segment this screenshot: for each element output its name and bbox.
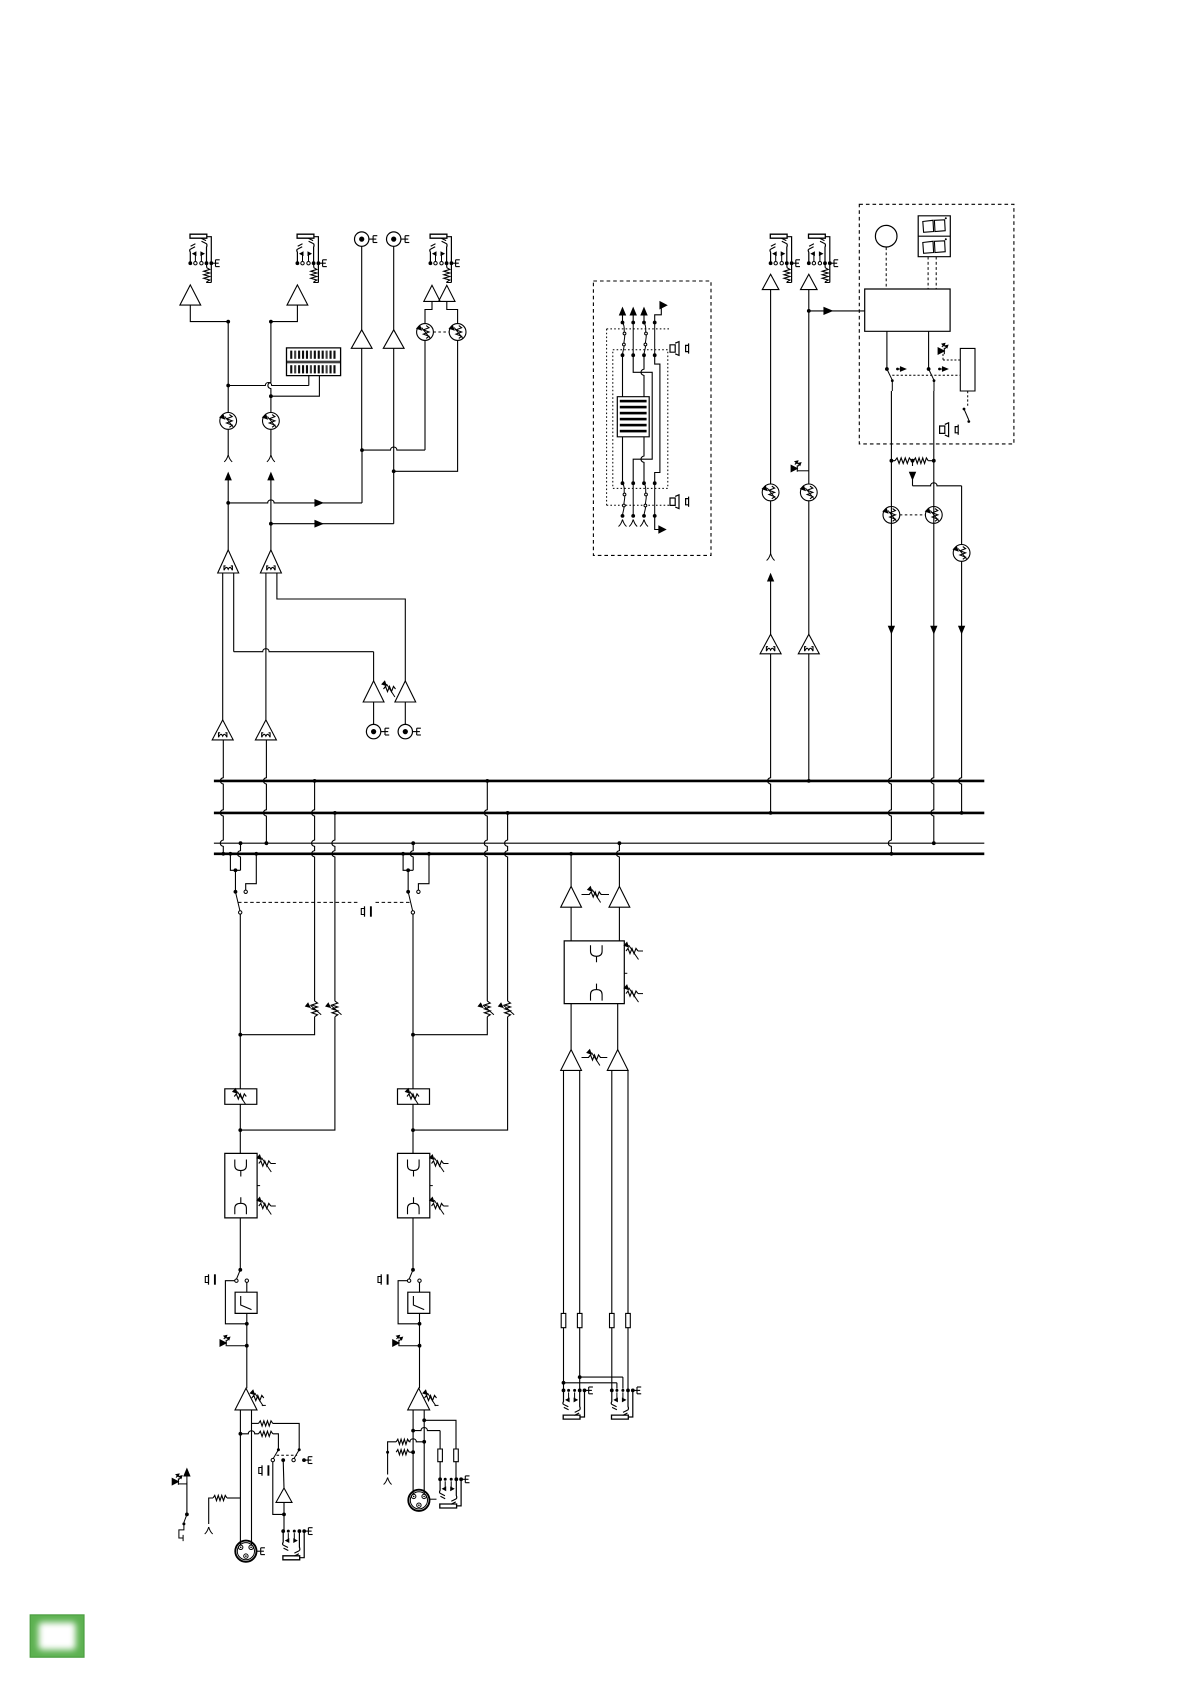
wire main L chain	[227, 322, 229, 413]
op-amp CH1 comp amp	[276, 1488, 292, 1502]
op-amp T4 mix amp R	[255, 720, 276, 740]
variable resistor CH1 EQ hi	[257, 1155, 276, 1172]
switch S3 speaker	[963, 408, 971, 423]
wire CH2 sw common	[406, 870, 410, 893]
LED CH2 clip	[393, 1335, 420, 1346]
resistor R5 mono sum L	[890, 458, 912, 464]
power amp dashed enclosure	[859, 204, 1014, 444]
op-amp T3 mix amp L	[212, 720, 233, 740]
switch S1 amp L	[887, 369, 894, 391]
wire CH1 preamp legs	[240, 1410, 251, 1545]
wire CH2 aux2 tap	[411, 1017, 508, 1132]
fader CH2 level	[398, 1089, 430, 1105]
wire ST leg tails	[564, 1328, 629, 1391]
wire lamp dashed	[885, 247, 887, 289]
op-amp T5 monitor amp L	[760, 634, 781, 654]
wire FX ch1 to tank	[622, 355, 624, 397]
wire A7 to P4	[447, 301, 458, 323]
wire ctrl L chain	[770, 290, 772, 484]
node speaker arrow R	[938, 367, 947, 371]
switch S2 amp R	[929, 369, 936, 391]
wire U2 dotted down	[967, 391, 969, 406]
wire P6 to T6	[808, 501, 810, 635]
connector J5 phones jack	[429, 234, 460, 282]
wire bus 4 (aux R)	[214, 852, 984, 855]
LED meter DS1	[287, 348, 341, 376]
wire T1 left leg	[222, 573, 224, 720]
wire P5 to insert	[770, 501, 772, 554]
FX inner dotted frame A	[607, 329, 670, 505]
variable resistor CH1 gain	[250, 1390, 265, 1406]
wire P1 to insert	[227, 429, 229, 455]
resistor R9 divider a	[388, 1439, 427, 1452]
resistor R12 jack series b	[454, 1449, 459, 1462]
potentiometer P5 ctrl level L	[762, 484, 779, 501]
wire ST legs	[564, 1070, 629, 1313]
wire T3 to bus4	[220, 740, 225, 856]
node CH2 bus taps	[401, 841, 431, 855]
node amp L bus4 dot	[890, 852, 894, 856]
wire T1 right leg to RCA L	[234, 573, 374, 681]
connector R3 rec out L RCA	[366, 724, 389, 738]
wire ST EQ out	[571, 1004, 618, 1050]
wire CH2 jack tap cold	[411, 1428, 440, 1449]
op-amp A3 2TK out L	[351, 330, 372, 349]
variable resistor ST trim	[582, 887, 610, 903]
node main R insert send chevron	[267, 455, 275, 462]
op-amp ST amp R	[609, 886, 630, 907]
op-amp ST line amp R	[607, 1050, 628, 1071]
FX bypass relay bottom	[623, 483, 648, 516]
connector R1 2TK out L RCA	[355, 232, 378, 246]
wire tank out 1	[622, 437, 624, 483]
resistor R11 jack series a	[438, 1449, 443, 1462]
FX inner dotted frame B	[613, 350, 668, 489]
fader CH1 level	[225, 1089, 257, 1105]
wire CH1 EQ to sw	[238, 1218, 242, 1272]
potentiometer P9 aux master	[953, 545, 970, 562]
node CH1 comp contacts	[281, 1457, 312, 1464]
wire ST link hot	[578, 1375, 623, 1389]
op-amp A9 ctrl out R	[801, 274, 818, 289]
connector J1 main out L jack	[188, 234, 219, 282]
resistor R7 phantom L	[252, 1421, 300, 1450]
variable resistor CH1 aux1	[306, 1001, 322, 1017]
connector J2 main out R jack	[296, 234, 327, 282]
connector J6 CH1 insert jack	[281, 1528, 312, 1560]
connector J4 ctrl room R jack	[807, 234, 838, 282]
switch CH2 input select	[408, 892, 414, 914]
LED D3 protect	[938, 343, 960, 360]
wire A2 out to node R	[269, 305, 297, 323]
wire U1 out L	[885, 331, 889, 371]
switch S4 phantom a	[271, 1448, 280, 1462]
op-amp A8 ctrl out L	[762, 274, 779, 289]
wire phones feed L	[362, 340, 425, 450]
wire CH1 comp in	[282, 1460, 285, 1488]
EQ block CH1	[225, 1153, 257, 1218]
connector J8 ST jack L	[562, 1387, 593, 1419]
connector X2 CH2 XLR	[408, 1490, 429, 1511]
potentiometer P3 phones level L	[417, 324, 434, 341]
mute speaker CH1 comp	[259, 1465, 269, 1475]
resistor ST leg a	[561, 1313, 566, 1327]
potentiometer P6 ctrl level R	[800, 484, 817, 501]
wire A4 to node	[393, 348, 395, 471]
EQ block ST	[564, 941, 624, 1004]
protect block U2	[960, 348, 975, 391]
wire CH1 aux2 tap	[238, 1017, 334, 1132]
wire CH1 to preamp	[245, 1324, 249, 1389]
potentiometer P1 main fader L	[220, 413, 237, 430]
wire CH2 lowcut bypass	[398, 1281, 421, 1326]
wire bus 1 (main L)	[214, 780, 984, 783]
potentiometer P8 phones R	[925, 507, 942, 524]
wire mute gang CH1-CH2	[238, 901, 410, 903]
wire CH1 to aux taps	[238, 914, 242, 1037]
connector R2 2TK out R RCA	[387, 232, 410, 246]
node CH1 bus taps	[229, 841, 259, 855]
wire T5 to bus2	[768, 654, 773, 815]
node ST bus taps	[569, 841, 621, 855]
switch S6 mic	[182, 1514, 187, 1525]
wire tank out 2	[641, 437, 644, 483]
connector J7 CH2 line jack	[438, 1476, 469, 1508]
wire CH1 legs to XLR	[0, 0, 1, 1]
wire amp L down	[888, 391, 891, 854]
wire display dashed	[928, 257, 936, 289]
wire CH1 comp bypass	[273, 1462, 286, 1517]
wire gang P3-P4	[433, 331, 449, 333]
variable resistor ST gain	[582, 1050, 608, 1066]
wire FX footswitch arrow	[653, 302, 667, 325]
wire ST L from bus4	[570, 854, 572, 887]
resistor R6 mono sum R	[911, 458, 936, 464]
LED CH1 mic	[172, 1474, 187, 1485]
op-amp CH1 preamp	[235, 1388, 257, 1410]
wire gang P7-P8	[900, 514, 926, 516]
wire R2 to A4	[393, 246, 395, 329]
op-amp A6 phones amp L	[424, 285, 440, 301]
wire A11 to R4	[404, 702, 406, 724]
wire CH1 aux1 tap	[240, 1017, 314, 1035]
variable resistor ST EQ lo	[624, 973, 643, 1002]
wire A10 to R3	[373, 702, 375, 724]
node FX out row	[621, 514, 657, 518]
speaker icon FX bottom	[670, 495, 689, 509]
switch S5 phantom b	[292, 1448, 301, 1462]
speaker icon CH2 lowcut	[378, 1274, 388, 1284]
wire CH2 aux1 tap	[413, 1017, 487, 1035]
speaker icon main	[940, 423, 959, 437]
wire A3 to node	[361, 348, 363, 450]
filter block CH1 lowcut	[235, 1282, 257, 1323]
wire A1 out to node L	[190, 305, 230, 323]
wire CH2 to preamp	[418, 1324, 422, 1389]
wire main R to driver T2	[270, 524, 272, 550]
EQ block CH2	[398, 1153, 430, 1218]
wire S6 stub	[179, 1524, 184, 1541]
variable resistor ST EQ hi	[624, 943, 643, 960]
wire main R insert return arrow	[268, 473, 274, 526]
wire ctrl R upper	[807, 290, 811, 484]
node FX out chevrons	[619, 520, 649, 527]
wire A6 to P3	[425, 301, 432, 323]
op-amp A10 rec out L	[363, 681, 384, 702]
LED CH1 clip	[220, 1335, 247, 1346]
wire bus 2 (main R)	[214, 812, 984, 815]
wire FX ch3 to tank	[641, 355, 644, 397]
wire CH2 aux2 to bus2	[505, 811, 510, 1001]
wire P2 to insert	[270, 429, 272, 455]
node ctrl L chevron	[767, 554, 775, 561]
connector R4 rec out R RCA	[398, 724, 421, 738]
node FX return contacts	[621, 481, 657, 485]
potentiometer P2 main fader R	[263, 413, 280, 430]
node amp L arrow	[889, 626, 895, 633]
wire ST to EQ	[571, 907, 619, 941]
node CH1 pad chevron	[205, 1527, 213, 1534]
wire CH2 XLR to jack	[429, 1498, 437, 1500]
op-amp ST amp L	[561, 886, 582, 907]
wire phantom gang	[277, 1454, 298, 1456]
wire FX input arrow 2	[630, 308, 636, 324]
connector J9 ST jack R	[610, 1387, 641, 1419]
wire T2 right leg to RCA R	[277, 573, 405, 681]
spring tank block	[617, 397, 649, 437]
wire CH2 aux1 to bus1	[484, 779, 489, 1001]
wire CH1 sw common	[234, 870, 238, 893]
wire 2TK feed R	[271, 469, 396, 526]
FX unit dashed enclosure	[593, 281, 711, 555]
wire FX input arrow 3	[641, 308, 647, 324]
op-amp A1 main out L driver	[180, 285, 201, 305]
op-amp CH2 preamp	[408, 1388, 430, 1410]
node main L insert send chevron	[224, 455, 232, 462]
wire main R chain	[268, 322, 271, 413]
lamp G1	[875, 225, 897, 247]
op-amp A2 main out R driver	[287, 285, 308, 305]
wire meter input R	[269, 376, 319, 399]
variable resistor CH1 aux2	[326, 1001, 342, 1017]
node speaker arrow L	[896, 367, 905, 371]
wire CH1 mic arrow	[184, 1469, 190, 1516]
resistor ST leg d	[626, 1313, 631, 1327]
wire 2TK feed L	[228, 448, 364, 506]
wire mono tap	[910, 461, 962, 545]
wire CH2 to aux taps	[411, 914, 415, 1037]
wire ST link cold	[562, 1381, 617, 1389]
green nav button	[30, 1615, 84, 1657]
wire T4 to bus3	[263, 740, 268, 845]
wire P9 to bus2	[959, 561, 965, 815]
speaker icon CH1 lowcut	[205, 1274, 215, 1284]
7-segment display DS2	[918, 216, 950, 257]
wire CH1 mid	[239, 1035, 241, 1154]
wire R1 to A3	[361, 246, 363, 329]
wire FX footswitch out arrow	[655, 516, 666, 533]
wire FX input arrow 1	[620, 308, 626, 324]
wire FX dry loop right	[655, 355, 660, 483]
node CH2 line chevron	[384, 1478, 392, 1485]
wire ST R from bus3	[616, 843, 619, 886]
variable resistor CH2 EQ lo	[430, 1186, 449, 1215]
wire main L insert return arrow	[225, 473, 231, 505]
switch CH2 lowcut	[407, 1270, 421, 1283]
wire ctrl L arrow to T5	[768, 574, 774, 634]
wire CH2 preamp legs	[413, 1410, 424, 1494]
resistor ST leg b	[577, 1313, 582, 1327]
op-amp ST line amp L	[561, 1050, 582, 1071]
wire phones feed R	[394, 340, 458, 471]
connector X1 CH1 XLR	[235, 1541, 265, 1562]
wire CH2 jack leads	[440, 1462, 456, 1480]
wire main L to driver T1	[227, 503, 229, 550]
variable resistor CH2 aux1	[478, 1001, 494, 1017]
op-amp A11 rec out R	[395, 681, 416, 702]
filter block CH2 lowcut	[408, 1282, 430, 1323]
resistor CH1 pad	[209, 1495, 241, 1524]
resistor R10 divider b	[386, 1450, 415, 1475]
wire relay dotted link	[892, 374, 960, 376]
resistor R8 phantom R	[239, 1431, 279, 1450]
resistor ST leg c	[610, 1313, 615, 1327]
wire meter input L	[226, 376, 308, 388]
wire amp R down	[931, 391, 934, 843]
node amp R bus3 dot	[932, 841, 936, 845]
wire CH1 aux2 to bus2	[332, 811, 337, 1001]
wire U1 out R	[927, 331, 931, 371]
switch CH1 input select	[235, 892, 241, 914]
wire main feed arrow to U1	[809, 308, 865, 315]
wire CH1 comp out	[283, 1502, 285, 1531]
variable resistor CH2 gain	[423, 1390, 439, 1406]
wire CH2 EQ to sw	[411, 1218, 415, 1272]
wire FX ch2 bypass right	[633, 355, 652, 483]
op-amp T1 balanced driver L	[218, 550, 239, 573]
speaker icon mute gang	[361, 906, 371, 916]
potentiometer P7 phones L	[883, 507, 900, 524]
wire CH2 jack tap hot	[422, 1418, 456, 1449]
wire bus 3 (aux L)	[214, 842, 984, 844]
wire T6 to bus1	[807, 654, 811, 783]
op-amp T2 balanced driver R	[260, 550, 281, 573]
power amp block U1	[865, 289, 950, 331]
wire CH2 NC contact	[417, 854, 429, 894]
op-amp T6 monitor amp R	[798, 634, 819, 654]
node FX send contacts	[621, 323, 657, 358]
potentiometer P4 phones level R	[449, 324, 466, 341]
wire CH2 bus bracket	[403, 843, 413, 872]
wire CH1 aux1 to bus1	[312, 779, 317, 1001]
wire CH1 lowcut bypass	[225, 1281, 248, 1326]
wire T2 left leg	[265, 573, 267, 720]
FX bypass relay top	[623, 323, 648, 356]
LED D2 power indicator	[791, 461, 809, 472]
variable resistor V0 rec level	[382, 681, 396, 697]
variable resistor CH2 EQ hi	[430, 1155, 449, 1172]
node amp R arrow	[931, 626, 937, 633]
connector J3 ctrl room L jack	[769, 234, 800, 282]
wire CH1 NC contact	[244, 854, 256, 894]
variable resistor CH1 EQ lo	[257, 1186, 276, 1215]
wire CH2 mid	[412, 1035, 414, 1154]
op-amp A7 phones amp R	[439, 285, 455, 301]
op-amp A4 2TK out R	[383, 330, 404, 349]
speaker icon FX top	[670, 342, 689, 356]
wire CH1 bus bracket	[230, 843, 240, 872]
wire FX out straights	[633, 483, 655, 516]
variable resistor CH2 aux2	[499, 1001, 515, 1017]
switch CH1 lowcut	[235, 1270, 249, 1283]
